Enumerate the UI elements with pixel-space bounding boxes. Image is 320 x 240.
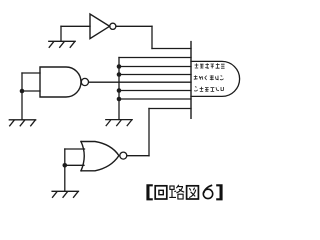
junction dot pin6: [117, 88, 122, 93]
inverter U1 output bubble: [110, 23, 116, 29]
ground G1 (inverter input): [49, 41, 75, 47]
wire NOR output rise: [148, 109, 150, 156]
wire inverter output vertical drop: [151, 26, 153, 48]
caption kanji 回: [155, 186, 167, 199]
junction dot pin4: [117, 72, 122, 77]
junction dot NOR inputs: [63, 163, 68, 168]
wire inverter input to ground: [60, 26, 62, 41]
ground G4 (NOR inputs): [52, 191, 78, 197]
caption digit 6: [203, 185, 212, 198]
wire NAND input lower: [22, 90, 40, 92]
wire NAND input upper: [22, 72, 40, 74]
wire NAND inputs to ground: [21, 91, 23, 120]
component U4 left edge bus: [190, 42, 192, 119]
caption bracket left: [146, 184, 152, 200]
junction dot pin7: [117, 97, 122, 102]
wire NAND input tie vertical: [21, 73, 23, 91]
wire NOR input lower: [65, 164, 84, 166]
NAND U2 output bubble: [81, 78, 88, 85]
junction dot NAND inputs: [20, 89, 25, 94]
NOR U3 back arc: [81, 142, 84, 171]
wire pin4 of U4: [119, 74, 191, 76]
wire pin2 of U4: [119, 57, 191, 59]
caption bracket right: [216, 184, 222, 200]
junction dot pin3: [117, 64, 122, 69]
wire pin3 of U4: [119, 66, 191, 68]
wire inverter output horizontal: [116, 25, 152, 27]
inverter U1 triangle: [90, 14, 110, 39]
wire to pin1 of U4: [152, 48, 191, 50]
caption 回路図6 label: [146, 184, 222, 200]
ground G2 (NAND inputs): [9, 120, 35, 126]
wire pin6 of U4: [119, 90, 191, 92]
component U4 body outline: [191, 61, 240, 96]
ground G3 (tied pins stub): [106, 120, 132, 126]
wire pin7 of U4: [119, 98, 191, 100]
component U4 value label line2 (tiny kanji): [194, 75, 224, 80]
wire NAND output to pin5 of U4: [89, 81, 191, 83]
wire NOR input upper: [65, 148, 85, 150]
NAND U2 body: [40, 67, 81, 97]
node stub vertical (tied pins): [118, 58, 120, 120]
wire to pin8 of U4: [149, 108, 191, 110]
NOR U3 output bubble: [120, 152, 127, 159]
wire inverter input: [61, 25, 90, 27]
wire NOR inputs to ground: [64, 165, 66, 191]
wire NOR output horizontal: [127, 155, 149, 157]
wire NOR input tie vertical: [64, 149, 66, 165]
NOR U3 body: [81, 142, 119, 171]
caption kanji 路: [169, 185, 184, 199]
component U4 value label line1 (tiny kanji): [195, 63, 225, 68]
caption kanji 図: [187, 186, 199, 199]
component U4 value label line3 (tiny kanji): [194, 87, 223, 92]
